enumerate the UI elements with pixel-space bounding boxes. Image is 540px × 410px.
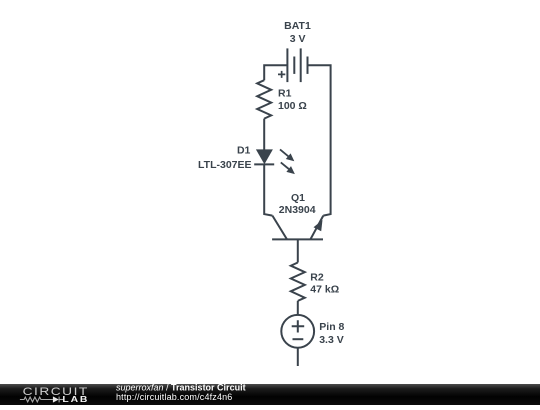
CircuitLab logo diode triangle <box>53 396 59 402</box>
svg-text:R1: R1 <box>278 87 292 99</box>
wire R2 to voltage source <box>297 301 299 315</box>
LED D1 <box>254 149 295 174</box>
wire Q1 emitter to battery negative terminal <box>308 65 331 215</box>
svg-text:Pin 8: Pin 8 <box>319 321 344 333</box>
wire below voltage source <box>297 348 299 366</box>
svg-text:Q1: Q1 <box>291 192 305 204</box>
svg-text:D1: D1 <box>237 145 251 157</box>
battery BAT1 <box>278 48 308 82</box>
svg-text:100 Ω: 100 Ω <box>278 100 307 112</box>
wire battery positive terminal to R1 <box>264 65 287 80</box>
wire LED cathode down to Q1 collector <box>264 164 272 215</box>
svg-text:LTL-307EE: LTL-307EE <box>198 159 251 171</box>
transistor Q1 <box>272 216 323 240</box>
wire R1 to LED D1 anode <box>263 119 265 150</box>
svg-text:3 V: 3 V <box>290 33 306 45</box>
svg-text:47 kΩ: 47 kΩ <box>310 284 339 296</box>
svg-text:LAB: LAB <box>62 395 87 405</box>
svg-text:BAT1: BAT1 <box>284 20 311 32</box>
footer banner <box>0 384 540 405</box>
svg-text:2N3904: 2N3904 <box>279 204 316 216</box>
CircuitLab logo schematic line with resistor and diode <box>20 397 64 403</box>
resistor R1 <box>257 80 271 118</box>
svg-text:R2: R2 <box>310 271 324 283</box>
resistor R2 <box>291 263 305 301</box>
svg-text:http://circuitlab.com/c4fz4n6: http://circuitlab.com/c4fz4n6 <box>116 392 232 402</box>
svg-text:3.3 V: 3.3 V <box>319 334 344 346</box>
voltage source V1 Pin 8 <box>281 315 314 348</box>
wire Q1 base to R2 <box>297 239 299 262</box>
